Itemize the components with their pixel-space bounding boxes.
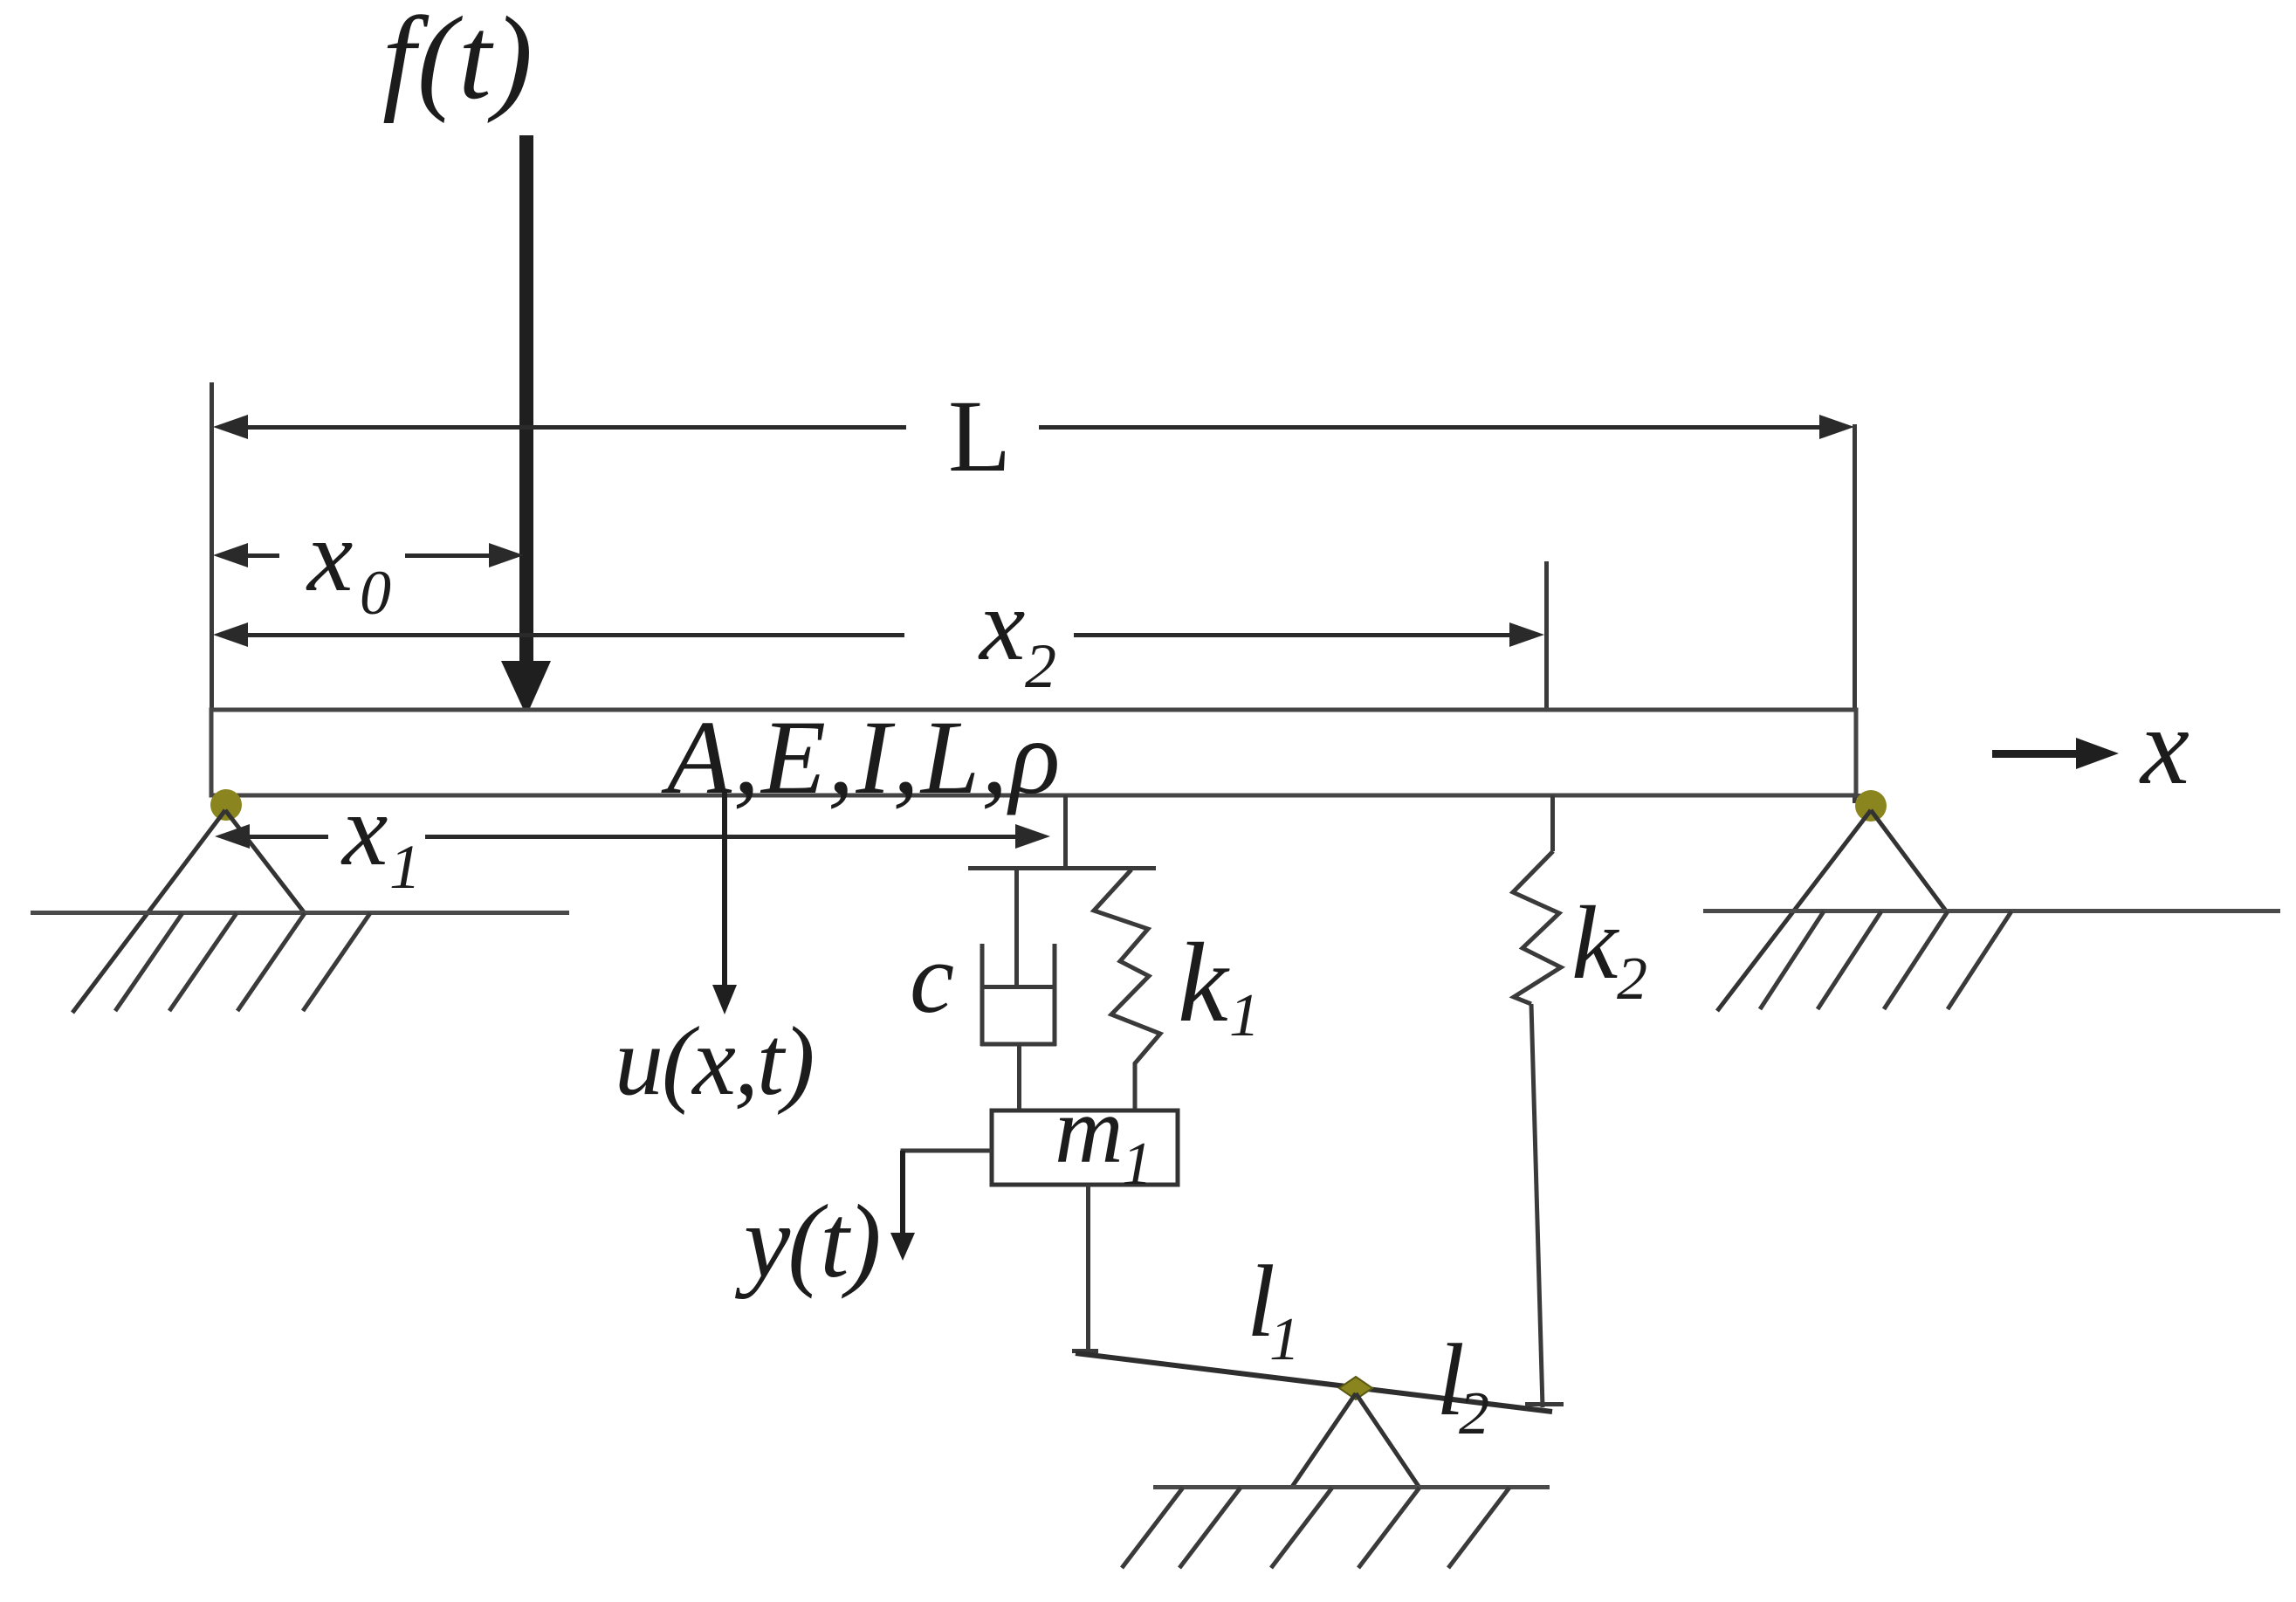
svg-text:L: L [948,379,1011,493]
dimension x2 [213,622,1544,647]
damper c rod [1014,870,1019,987]
hanger stem to damper-spring [1063,795,1068,868]
svg-text:x: x [978,567,1025,682]
svg-text:2: 2 [1025,631,1056,701]
hatching right [1760,911,2011,1009]
spring k1 [1094,870,1160,1112]
svg-text:1: 1 [389,832,421,902]
mass m1 [992,1110,1178,1185]
svg-text:f(t): f(t) [382,0,534,124]
node tick at x2 [1544,561,1549,712]
force arrow f(t) [501,135,551,716]
beam A,E,I,L,rho [211,710,1856,795]
damper c piston plate [982,985,1055,989]
support triangle left [72,810,305,1013]
support triangle right [1717,810,1948,1011]
svg-text:x: x [306,498,353,613]
pivot diamond [1339,1377,1372,1399]
hatching middle [1122,1488,1509,1568]
svg-text:k: k [1178,920,1230,1046]
ground line middle [1153,1485,1550,1489]
svg-text:x: x [2139,686,2189,808]
x axis arrow [1992,738,2119,769]
dimension x0 [213,543,524,567]
svg-text:A,E,I,L,ρ: A,E,I,L,ρ [661,699,1062,816]
dimension L [213,415,1854,439]
svg-text:1: 1 [1269,1306,1300,1373]
pin left [210,789,242,821]
spring k2 lower rod to lever [1531,1004,1543,1407]
extension line right [1853,424,1857,803]
spring k2 top lead [1550,795,1555,851]
displacement arrow y(t) [890,1151,915,1261]
svg-text:m: m [1055,1077,1124,1183]
pin right [1855,790,1887,822]
svg-text:x: x [340,773,388,887]
lever left end tick [1072,1349,1098,1353]
lever right end tick [1525,1402,1564,1406]
spring k2 [1513,851,1561,1004]
svg-text:2: 2 [1459,1380,1489,1447]
svg-text:k: k [1571,884,1620,1000]
svg-text:u(x,t): u(x,t) [615,1007,813,1116]
svg-text:0: 0 [360,558,391,628]
lever bar l1 l2 [1076,1353,1552,1412]
damper c lower rod [1017,1046,1021,1114]
svg-text:1: 1 [1229,982,1260,1049]
hatching left [115,913,370,1011]
ground line left [31,911,569,915]
svg-text:c: c [910,923,954,1034]
svg-text:y(t): y(t) [734,1183,879,1299]
beam bottom extension to right pin [1856,794,1879,798]
bracket to y(t) arrow [903,1151,992,1161]
displacement arrow u(x,t) [712,793,737,1014]
link mass to lever [1086,1185,1090,1355]
pivot support triangle [1292,1393,1420,1488]
top bar of damper-spring unit [968,866,1156,870]
damper c cylinder [980,944,1056,1046]
svg-text:2: 2 [1617,945,1647,1013]
dimension x1 [215,824,1050,849]
ground line right [1703,909,2280,913]
extension line left [210,382,214,793]
svg-text:1: 1 [1122,1131,1152,1198]
